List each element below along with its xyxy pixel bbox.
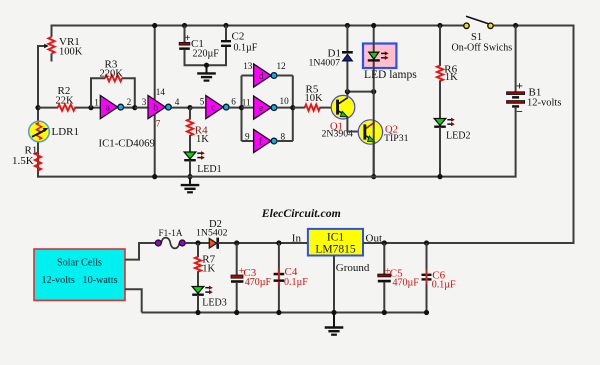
node junction C2 top: [223, 23, 228, 28]
svg-text:3: 3: [142, 97, 147, 107]
wire inverter e output: [277, 107, 293, 109]
wire Q1 collector riser: [346, 91, 348, 98]
wire R4 upper stem: [189, 108, 191, 120]
node junction D1 top: [345, 23, 350, 28]
resistor R6: [437, 66, 443, 81]
resistor R3: [105, 75, 122, 81]
svg-text:5: 5: [200, 96, 205, 106]
svg-text:+: +: [185, 33, 191, 44]
svg-text:220K: 220K: [100, 68, 124, 79]
node junction LED1/ground: [187, 174, 192, 179]
wire input to inverter e: [242, 107, 255, 109]
svg-text:LDR1: LDR1: [52, 126, 80, 138]
wire solar positive to fuse: [125, 243, 156, 260]
wire R3 feedback loop: [91, 78, 135, 107]
svg-text:In: In: [292, 232, 302, 244]
op-amp inverter U1c: [206, 96, 229, 119]
node junction C5 top: [382, 240, 387, 245]
node junction C1 top: [182, 23, 187, 28]
resistor R4: [187, 119, 193, 136]
svg-text:LED lamps: LED lamps: [364, 69, 417, 81]
svg-text:LED1: LED1: [197, 164, 221, 175]
node junction C4 rail: [276, 310, 281, 315]
node junction LED3 rail: [195, 310, 200, 315]
LED LED3: [192, 286, 213, 295]
node junction LED lamps top: [371, 23, 376, 28]
wire Q1 emitter to Q2 base: [347, 117, 363, 132]
wire C4 bottom stem: [278, 282, 280, 314]
wire VR1 wiper arrow: [38, 45, 46, 47]
svg-text:12-volts 10-watts: 12-volts 10-watts: [41, 275, 117, 286]
wire LED lamps vertical line: [373, 26, 375, 178]
resistor R2: [58, 105, 75, 111]
wire inverter c output to def node: [229, 107, 243, 109]
svg-text:e: e: [259, 103, 264, 114]
wire R6 top stem: [439, 26, 441, 67]
svg-text:14: 14: [156, 87, 166, 97]
wire R2 to inverter a input: [75, 107, 101, 109]
LED LED2: [434, 118, 455, 127]
node junction C3 top: [234, 240, 239, 245]
regulator IC1 LM7815 box: [308, 229, 363, 256]
svg-text:C2: C2: [232, 31, 245, 43]
wire B1 bottom stem: [515, 108, 517, 178]
node junction pin7 ground: [152, 174, 157, 179]
photoresistor LDR1: [29, 121, 50, 142]
wire IC power line pin14 to pin7: [154, 26, 156, 178]
wire VR1 bottom stub: [51, 54, 53, 62]
svg-text:1N5402: 1N5402: [196, 228, 228, 239]
svg-text:6: 6: [231, 96, 236, 106]
wire C5 top stem: [383, 243, 385, 274]
wire regulator ground stem: [333, 256, 335, 314]
wire C2 bottom stem: [207, 47, 227, 65]
wire input to inverter d: [242, 75, 255, 77]
node junction B1 top: [513, 23, 518, 28]
capacitor C5 470uF: [378, 274, 391, 282]
svg-text:8: 8: [281, 131, 286, 141]
svg-text:TIP31: TIP31: [384, 133, 409, 144]
wire C1 top stem: [184, 26, 186, 43]
wire collector rail D1-Q1-Q2: [347, 91, 373, 93]
wire def input bus: [241, 76, 243, 142]
LED lamp symbol: [368, 51, 389, 60]
diode D1 1N4007: [342, 52, 353, 61]
svg-text:F1-1A: F1-1A: [159, 228, 183, 238]
fuse F1 contact right: [179, 240, 185, 246]
wire C2 top stem: [225, 26, 227, 41]
node junction def output: [290, 105, 295, 110]
svg-text:Solar Cells: Solar Cells: [57, 258, 102, 269]
switch S1 lever: [466, 16, 489, 24]
svg-text:S1: S1: [471, 32, 482, 43]
resistor R1: [35, 152, 41, 170]
wire R7 upper stem: [197, 243, 199, 257]
node junction pin14 top rail: [152, 23, 157, 28]
svg-text:4: 4: [175, 97, 180, 107]
svg-text:ElecCircuit.com: ElecCircuit.com: [261, 206, 341, 220]
svg-text:b: b: [153, 103, 158, 114]
diode D2 1N5402: [209, 238, 217, 249]
LED lamps box: [363, 44, 396, 69]
capacitor C1 220uF: [179, 42, 190, 50]
op-amp inverter U1a: [100, 96, 123, 119]
node junction Q2 collector rail: [371, 89, 376, 94]
wire C1 bottom stem: [185, 50, 207, 65]
svg-text:10K: 10K: [305, 93, 324, 104]
wire D1 bottom stem: [346, 62, 348, 93]
wire lower negative rail: [142, 312, 427, 314]
op-amp inverter U1d: [254, 64, 277, 87]
wire main line to R2: [38, 107, 58, 109]
svg-text:LED3: LED3: [202, 297, 226, 308]
svg-text:9: 9: [245, 131, 250, 141]
svg-text:c: c: [211, 103, 216, 114]
LED LED1: [184, 151, 205, 160]
svg-text:100K: 100K: [59, 47, 83, 58]
resistor R5: [305, 105, 320, 111]
transistor Q2 TIP31: [358, 120, 382, 144]
wire ground rail of oscillator section: [37, 176, 516, 178]
transistor Q1 2N3904: [331, 95, 355, 119]
wire Q2 emitter to ground rail: [373, 142, 375, 178]
svg-text:11: 11: [242, 97, 251, 107]
svg-text:IC1-CD4069: IC1-CD4069: [99, 138, 155, 150]
capacitor C4 0.1uF: [274, 269, 285, 282]
wire inverter f output: [277, 140, 293, 142]
node junction C6 top: [424, 240, 429, 245]
wire B1 top stem: [515, 26, 517, 93]
wire left vertical branch: [37, 45, 39, 178]
capacitor C3 470uF: [231, 275, 243, 283]
svg-text:+: +: [516, 78, 523, 92]
wire inverter b output to node: [171, 107, 190, 109]
op-amp inverter U1f: [254, 129, 277, 152]
node junction pin4: [187, 105, 192, 110]
wire node to inverter c input: [190, 107, 207, 109]
wire lower ground stem: [333, 313, 335, 327]
svg-text:1.5K: 1.5K: [12, 155, 34, 167]
wire VR1 top stem: [51, 25, 53, 38]
wire R6 to LED2: [439, 81, 441, 120]
wire node10 to R5: [293, 107, 305, 109]
ground C1C2 ground symbol: [206, 65, 208, 72]
svg-text:IC1: IC1: [327, 231, 345, 243]
wire R7 to LED3: [197, 271, 199, 287]
wire C5 bottom stem: [383, 282, 385, 313]
resistor R7: [195, 257, 201, 272]
wire right edge from top rail to output line: [427, 25, 574, 244]
ground main ground symbol: [189, 177, 191, 184]
wire input to inverter f: [242, 140, 255, 142]
wire LED3 to lower rail: [197, 295, 199, 314]
wire C3 top stem: [236, 243, 238, 275]
node junction Q2 emitter ground: [371, 174, 376, 179]
node junction R6 top: [437, 23, 442, 28]
op-amp inverter U1b: [148, 96, 171, 119]
wire fuse to D2: [185, 242, 210, 244]
node junction C6 rail: [424, 310, 429, 315]
svg-text:220µF: 220µF: [193, 48, 220, 59]
fuse F1 1A element: [161, 238, 179, 249]
svg-text:22K: 22K: [56, 96, 75, 107]
node junction C4 top: [276, 240, 281, 245]
node junction R7 tap: [195, 240, 200, 245]
svg-text:1: 1: [94, 98, 99, 108]
wire inverter d output: [277, 75, 293, 77]
node junction def input: [239, 105, 244, 110]
svg-text:10: 10: [280, 96, 290, 106]
svg-text:1K: 1K: [202, 263, 215, 274]
svg-text:1N4007: 1N4007: [309, 57, 341, 68]
svg-text:12: 12: [277, 61, 287, 71]
svg-text:2N3904: 2N3904: [322, 129, 354, 140]
op-amp inverter U1e: [254, 96, 277, 119]
fuse F1 contact left: [155, 240, 161, 246]
svg-text:12-volts: 12-volts: [527, 98, 561, 109]
wire D1 top stem: [346, 26, 348, 53]
wire C6 top stem: [426, 243, 428, 270]
svg-text:13: 13: [243, 61, 253, 71]
potentiometer VR1: [48, 37, 54, 54]
svg-text:1K: 1K: [445, 72, 458, 83]
svg-text:On-Off Swichs: On-Off Swichs: [452, 42, 513, 53]
wire D2 to regulator input: [218, 242, 309, 244]
svg-text:LM7815: LM7815: [315, 244, 356, 256]
svg-text:470µF: 470µF: [393, 277, 420, 288]
capacitor C2 0.1uF: [221, 40, 231, 47]
node junction pin1: [88, 105, 93, 110]
svg-text:7: 7: [156, 118, 161, 128]
wire R5 to Q1 base: [320, 107, 336, 109]
node junction LED2 ground: [437, 174, 442, 179]
svg-text:1K: 1K: [196, 134, 209, 145]
svg-text:2: 2: [127, 97, 132, 107]
wire node to inverter b input: [135, 107, 149, 109]
wire LED2 to ground rail: [439, 127, 441, 178]
switch S1 contact left: [464, 23, 469, 28]
capacitor C6 0.1uF: [422, 274, 432, 281]
wire solar negative to lower rail: [125, 289, 142, 312]
wire C3 bottom stem: [236, 283, 238, 314]
svg-text:Ground: Ground: [336, 262, 370, 274]
node junction C1C2 ground: [204, 63, 209, 68]
wire inverter a output to node: [124, 107, 136, 109]
battery B1: [507, 92, 525, 108]
node junction C5 rail: [382, 310, 387, 315]
wire top +12V rail (left section): [52, 25, 465, 27]
svg-text:470µF: 470µF: [245, 277, 272, 288]
solar cells box: [34, 249, 125, 300]
node junction regulator ground rail: [331, 310, 336, 315]
svg-text:0.1µF: 0.1µF: [432, 280, 456, 291]
ground lower ground symbol: [325, 328, 344, 335]
node junction left/main: [35, 105, 40, 110]
node junction C3 rail: [234, 310, 239, 315]
svg-text:LED2: LED2: [446, 131, 470, 142]
wire C4 top stem: [278, 243, 280, 273]
wire def output bus: [292, 76, 294, 142]
svg-text:−: −: [516, 105, 523, 119]
svg-text:0.1µF: 0.1µF: [284, 277, 308, 288]
wire regulator output line: [363, 242, 428, 244]
wire R4 to LED1: [189, 135, 191, 152]
switch S1 contact right: [488, 23, 493, 28]
svg-text:a: a: [106, 103, 111, 114]
svg-text:0.1µF: 0.1µF: [234, 42, 258, 53]
svg-text:d: d: [259, 71, 264, 82]
wire LED1 to ground rail: [189, 160, 191, 177]
wire C6 bottom stem: [426, 281, 428, 285]
wire top +12V rail (right section after switch): [494, 25, 574, 27]
node junction pin2/pin3: [132, 105, 137, 110]
node junction Q1 collector: [345, 89, 350, 94]
